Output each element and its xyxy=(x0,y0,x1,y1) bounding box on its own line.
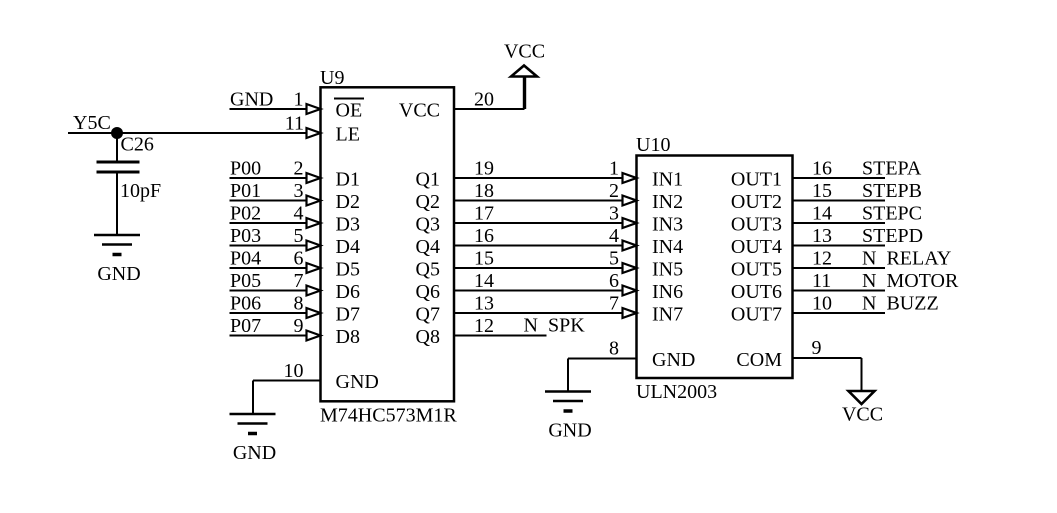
svg-text:OUT6: OUT6 xyxy=(731,281,782,303)
wire P02 to U9 pin 4 xyxy=(230,222,309,224)
svg-text:15: 15 xyxy=(474,248,494,270)
svg-text:OUT7: OUT7 xyxy=(731,304,782,326)
svg-text:D8: D8 xyxy=(336,326,360,348)
ground symbol below U9 pin 10 xyxy=(230,414,277,464)
svg-text:D3: D3 xyxy=(336,214,360,236)
svg-text:P00: P00 xyxy=(230,158,261,180)
IC U10 body xyxy=(637,156,793,379)
wire GND net to U9 pin 1 xyxy=(230,108,309,110)
svg-text:OUT2: OUT2 xyxy=(731,191,782,213)
svg-text:N SPK: N SPK xyxy=(524,315,586,337)
svg-text:GND: GND xyxy=(233,442,276,464)
svg-text:1: 1 xyxy=(609,158,619,180)
wire U10 OUT3 xyxy=(793,222,886,224)
svg-text:P02: P02 xyxy=(230,203,261,225)
svg-text:16: 16 xyxy=(474,225,494,247)
wire U9 Q4 to U10 IN4 xyxy=(454,245,625,247)
wire U9 Q2 to U10 IN2 xyxy=(454,200,625,202)
svg-text:P07: P07 xyxy=(230,315,261,337)
svg-text:10pF: 10pF xyxy=(120,180,161,202)
svg-text:3: 3 xyxy=(609,203,619,225)
pin arrow U9 pin 8 xyxy=(307,308,321,318)
svg-text:20: 20 xyxy=(474,89,494,111)
svg-text:10: 10 xyxy=(812,293,832,315)
wire U10 pin 9 to VCC xyxy=(793,358,862,391)
svg-text:13: 13 xyxy=(474,293,494,315)
pin arrow U10 pin 2 xyxy=(623,196,637,206)
wire P06 to U9 pin 8 xyxy=(230,312,309,314)
pin arrow U10 pin 1 xyxy=(623,173,637,183)
svg-text:C26: C26 xyxy=(121,134,154,156)
wire U9 Q7 to U10 IN7 xyxy=(454,312,625,314)
pin arrow U10 pin 4 xyxy=(623,241,637,251)
svg-text:D6: D6 xyxy=(336,281,360,303)
svg-text:M74HC573M1R: M74HC573M1R xyxy=(320,405,457,427)
wire U9 pin 20 to VCC xyxy=(454,77,525,110)
svg-text:OUT1: OUT1 xyxy=(731,169,782,191)
svg-text:12: 12 xyxy=(812,248,832,270)
svg-text:D7: D7 xyxy=(336,304,360,326)
svg-text:GND: GND xyxy=(336,371,379,393)
IC U9 body xyxy=(321,87,455,401)
svg-text:IN3: IN3 xyxy=(652,214,683,236)
pin arrow U10 pin 6 xyxy=(623,286,637,296)
svg-text:OUT3: OUT3 xyxy=(731,214,782,236)
svg-text:IN1: IN1 xyxy=(652,169,683,191)
pin arrow U9 pin 1 xyxy=(307,104,321,114)
svg-text:IN2: IN2 xyxy=(652,191,683,213)
wire U10 OUT7 xyxy=(793,312,886,314)
svg-text:Q1: Q1 xyxy=(416,169,440,191)
ground symbol below U10 pin 8 xyxy=(545,392,592,442)
pin arrow U9 pin 6 xyxy=(307,263,321,273)
capacitor C26 xyxy=(97,162,140,172)
wire U10 OUT5 xyxy=(793,267,886,269)
svg-text:1: 1 xyxy=(294,89,304,111)
wire node Y5C to capacitor C26 xyxy=(116,133,118,161)
svg-text:U10: U10 xyxy=(636,134,670,156)
svg-text:8: 8 xyxy=(609,338,619,360)
wire P01 to U9 pin 3 xyxy=(230,200,309,202)
svg-text:Q8: Q8 xyxy=(416,326,440,348)
wire P05 to U9 pin 7 xyxy=(230,290,309,292)
svg-text:VCC: VCC xyxy=(842,404,883,426)
svg-text:12: 12 xyxy=(474,315,494,337)
pin arrow U9 pin 3 xyxy=(307,196,321,206)
wire U10 OUT4 xyxy=(793,245,886,247)
wire P03 to U9 pin 5 xyxy=(230,245,309,247)
svg-text:16: 16 xyxy=(812,158,832,180)
wire P07 to U9 pin 9 xyxy=(230,335,309,337)
svg-text:11: 11 xyxy=(285,113,304,135)
svg-text:10: 10 xyxy=(284,360,304,382)
svg-text:7: 7 xyxy=(294,270,304,292)
svg-text:N MOTOR: N MOTOR xyxy=(862,270,959,292)
svg-text:LE: LE xyxy=(336,124,360,146)
svg-text:2: 2 xyxy=(609,180,619,202)
svg-text:IN6: IN6 xyxy=(652,281,683,303)
svg-text:9: 9 xyxy=(294,315,304,337)
wire U9 Q1 to U10 IN1 xyxy=(454,177,625,179)
pin arrow U9 pin 9 xyxy=(307,331,321,341)
svg-text:STEPA: STEPA xyxy=(862,158,922,180)
svg-text:18: 18 xyxy=(474,180,494,202)
svg-text:OUT5: OUT5 xyxy=(731,259,782,281)
svg-text:P04: P04 xyxy=(230,248,261,270)
pin arrow U10 pin 3 xyxy=(623,218,637,228)
svg-text:4: 4 xyxy=(609,225,619,247)
svg-text:GND: GND xyxy=(97,263,140,285)
junction dot node Y5C xyxy=(111,127,123,139)
VCC power symbol (top) xyxy=(511,66,537,77)
svg-text:9: 9 xyxy=(812,337,822,359)
svg-text:Q6: Q6 xyxy=(416,281,440,303)
svg-text:8: 8 xyxy=(294,293,304,315)
svg-text:U9: U9 xyxy=(320,67,344,89)
svg-text:13: 13 xyxy=(812,225,832,247)
pin arrow U10 pin 5 xyxy=(623,263,637,273)
svg-text:N RELAY: N RELAY xyxy=(862,248,951,270)
svg-text:OE: OE xyxy=(336,100,363,122)
svg-text:N BUZZ: N BUZZ xyxy=(862,293,939,315)
svg-text:17: 17 xyxy=(474,203,494,225)
svg-text:19: 19 xyxy=(474,158,494,180)
svg-text:4: 4 xyxy=(294,203,304,225)
wire U9 Q6 to U10 IN6 xyxy=(454,290,625,292)
svg-text:2: 2 xyxy=(294,158,304,180)
wire U9 pin 10 to ground xyxy=(253,381,321,415)
svg-text:11: 11 xyxy=(812,270,831,292)
svg-text:VCC: VCC xyxy=(399,100,440,122)
svg-text:P01: P01 xyxy=(230,180,261,202)
svg-text:D2: D2 xyxy=(336,191,360,213)
svg-text:Q4: Q4 xyxy=(416,236,440,258)
wire P04 to U9 pin 6 xyxy=(230,267,309,269)
VCC power symbol (bottom) xyxy=(849,391,875,404)
svg-text:6: 6 xyxy=(294,248,304,270)
svg-text:P06: P06 xyxy=(230,293,261,315)
svg-text:VCC: VCC xyxy=(504,41,545,63)
svg-text:P03: P03 xyxy=(230,225,261,247)
svg-text:D1: D1 xyxy=(336,169,360,191)
svg-text:D4: D4 xyxy=(336,236,360,258)
svg-text:Q2: Q2 xyxy=(416,191,440,213)
svg-text:3: 3 xyxy=(294,180,304,202)
pin arrow U9 pin 7 xyxy=(307,286,321,296)
svg-text:IN4: IN4 xyxy=(652,236,683,258)
wire node Y5C to U9 pin 11 xyxy=(68,132,309,134)
svg-text:GND: GND xyxy=(230,89,273,111)
svg-text:Q3: Q3 xyxy=(416,214,440,236)
svg-text:IN5: IN5 xyxy=(652,259,683,281)
pin arrow U9 pin 2 xyxy=(307,173,321,183)
svg-text:P05: P05 xyxy=(230,270,261,292)
svg-text:D5: D5 xyxy=(336,259,360,281)
svg-text:Q7: Q7 xyxy=(416,304,440,326)
wire U9 Q3 to U10 IN3 xyxy=(454,222,625,224)
pin arrow U9 pin 5 xyxy=(307,241,321,251)
wire U9 pin 12 net N_SPK xyxy=(454,335,547,337)
svg-text:ULN2003: ULN2003 xyxy=(636,381,717,403)
svg-text:7: 7 xyxy=(609,293,619,315)
svg-text:STEPB: STEPB xyxy=(862,180,922,202)
wire P00 to U9 pin 2 xyxy=(230,177,309,179)
svg-text:STEPC: STEPC xyxy=(862,203,922,225)
svg-text:GND: GND xyxy=(652,349,695,371)
svg-text:14: 14 xyxy=(812,203,832,225)
svg-text:5: 5 xyxy=(609,248,619,270)
svg-text:STEPD: STEPD xyxy=(862,225,923,247)
pin arrow U9 pin 4 xyxy=(307,218,321,228)
pin arrow U9 pin 11 xyxy=(307,128,321,138)
svg-text:6: 6 xyxy=(609,270,619,292)
svg-text:COM: COM xyxy=(736,349,782,371)
pin name OE with overline xyxy=(334,99,364,122)
svg-text:GND: GND xyxy=(548,420,591,442)
ground symbol below C26 xyxy=(94,235,141,285)
svg-text:IN7: IN7 xyxy=(652,304,683,326)
svg-text:15: 15 xyxy=(812,180,832,202)
svg-text:Y5C: Y5C xyxy=(73,112,111,134)
wire U10 pin 8 to ground xyxy=(568,359,637,392)
svg-text:5: 5 xyxy=(294,225,304,247)
svg-text:Q5: Q5 xyxy=(416,259,440,281)
wire capacitor C26 to ground xyxy=(116,174,118,236)
svg-text:OUT4: OUT4 xyxy=(731,236,782,258)
wire U10 OUT1 xyxy=(793,177,886,179)
pin arrow U10 pin 7 xyxy=(623,308,637,318)
svg-text:14: 14 xyxy=(474,270,494,292)
wire U10 OUT2 xyxy=(793,200,886,202)
wire U9 Q5 to U10 IN5 xyxy=(454,267,625,269)
wire U10 OUT6 xyxy=(793,290,886,292)
